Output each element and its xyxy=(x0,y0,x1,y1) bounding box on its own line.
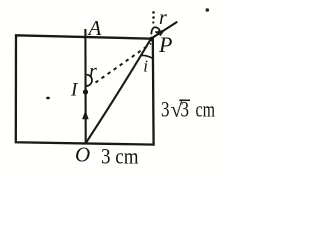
glass slab rectangle xyxy=(16,35,154,144)
angle mark r curl at P xyxy=(151,27,159,34)
svg-text:r: r xyxy=(89,61,97,83)
svg-text:A: A xyxy=(87,16,102,40)
stray dot top right xyxy=(206,8,210,12)
svg-text:P: P xyxy=(158,32,172,57)
svg-text:3 cm: 3 cm xyxy=(101,144,139,169)
arrow on line OA xyxy=(82,110,89,119)
angle arc r at I xyxy=(86,75,92,86)
incident ray O-P xyxy=(86,39,151,143)
angle arc i at P xyxy=(140,55,152,58)
svg-text:cm: cm xyxy=(196,97,216,122)
stray dot left xyxy=(46,97,50,100)
svg-text:O: O xyxy=(75,143,90,167)
svg-text:r: r xyxy=(159,7,167,29)
arrowhead on refracted ray xyxy=(157,30,165,37)
svg-text:i: i xyxy=(143,57,148,76)
dashed ray I-P xyxy=(96,44,152,83)
svg-text:I: I xyxy=(70,80,79,101)
node P junction blob xyxy=(149,37,154,42)
radical vinculum xyxy=(179,99,190,101)
svg-text:3: 3 xyxy=(161,97,170,122)
wire: vertical line A-O xyxy=(84,29,86,145)
refracted ray from P xyxy=(151,22,177,39)
point I dot xyxy=(83,89,88,94)
dotted normal above P xyxy=(152,11,155,24)
